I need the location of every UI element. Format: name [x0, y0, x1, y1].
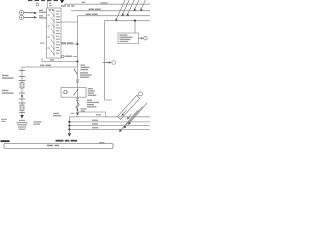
battery mid junction	[19, 92, 25, 94]
bus wire 4 (junction box bottom rail)	[105, 116, 150, 118]
label YEL/WHT	[86, 14, 98, 16]
bus wire BLK 1	[69, 121, 150, 123]
feeder wire label	[53, 113, 62, 117]
label HOT AT ALL TIMES (top-right of strip)	[61, 2, 108, 7]
bus wire BLK 2	[69, 125, 150, 127]
terminal + wire BLU/WHT (switch box bottom right)	[62, 55, 64, 57]
part number note	[99, 142, 105, 143]
label BLU/WHT	[89, 9, 101, 11]
battery G2 label	[2, 90, 14, 94]
margin note (left)	[1, 119, 7, 122]
switch box pin labels	[48, 11, 60, 54]
battery feed wire down	[21, 67, 23, 115]
label BLK	[92, 123, 98, 124]
junction	[68, 121, 70, 123]
internal bus wire	[53, 10, 55, 56]
contact x marks	[49, 9, 54, 11]
ground arrow (battery to frame ground)	[20, 115, 24, 119]
caption (ALTERNATOR CIRCUIT)	[56, 140, 78, 142]
wire RED/BLK from switch box	[61, 43, 78, 45]
C14 coil	[63, 91, 69, 93]
wire B BLU/WHT	[71, 10, 150, 12]
C14 label	[88, 88, 97, 96]
off-page arrows (top right diagonals)	[116, 0, 146, 21]
label BLK	[92, 127, 99, 128]
wire E (to relay box)	[105, 20, 151, 22]
chain backbone wire	[77, 16, 79, 113]
pin label left of switch box	[40, 43, 45, 44]
junction box terminal label	[96, 114, 101, 115]
connector strip pins (top edge, cut off)	[28, 0, 58, 1]
alternator cable (slanted)	[118, 96, 140, 120]
label BLK	[92, 120, 98, 121]
battery G1 label	[2, 75, 14, 79]
label BLK CABLE	[40, 65, 51, 66]
wire arrow from pin 1	[24, 12, 35, 14]
junction	[68, 125, 70, 127]
connector C10 on backbone	[76, 80, 79, 82]
connector pin 2 (to fuse block)	[19, 15, 23, 19]
relay C14 box	[61, 88, 86, 98]
fuse F22	[76, 103, 79, 109]
switch box S1 (main switch)	[47, 8, 62, 58]
wire + terminal from relay box	[139, 37, 143, 39]
harness box label	[47, 145, 59, 147]
junction at backbone bottom	[77, 109, 79, 111]
pin 2 wire label	[39, 15, 47, 18]
wire A (top feed)	[64, 3, 150, 5]
wire from node down to relay box	[134, 21, 136, 33]
figure note (bottom left)	[1, 140, 10, 142]
terminal circle on connector strip	[36, 3, 39, 6]
junction on RED bus	[76, 60, 78, 62]
side note GND cable	[34, 121, 42, 125]
ground bus arrow	[68, 133, 72, 136]
connector below relay	[76, 99, 79, 101]
chain arrow into junction box	[76, 113, 79, 116]
terminal with arrow (mid right)	[103, 62, 106, 64]
junction node on wire E	[134, 20, 136, 22]
wire from junction box to ground bus	[69, 117, 77, 133]
battery G2 cells	[19, 102, 26, 104]
battery G1 cells	[19, 71, 26, 81]
pin 1 wire label	[39, 10, 47, 13]
C14 contact	[74, 90, 77, 94]
connector pin 1 (to fuse block)	[19, 10, 23, 14]
alternator lead arrows	[123, 110, 127, 115]
wire from drop to alternator	[105, 99, 113, 101]
wire C YEL/WHT	[78, 15, 151, 17]
S2 label	[80, 65, 92, 78]
ground label	[17, 120, 28, 130]
bus wire BLK 3	[69, 128, 150, 130]
alternator terminal circle	[138, 92, 142, 96]
label RED	[50, 59, 54, 60]
bus feed label	[71, 113, 75, 114]
relay box (to accessory, top right)	[118, 33, 139, 44]
vertical drop x=104.5	[104, 21, 106, 100]
switch S2	[74, 70, 77, 75]
wire arrow from pin 2	[24, 16, 35, 18]
wire BLK CABLE (to battery)	[22, 66, 78, 68]
harness outline box (bottom)	[4, 143, 113, 148]
arrow at right end of connector strip	[60, 0, 64, 3]
wire stub from switch box to backbone	[61, 21, 78, 23]
battery junction box B+	[77, 112, 105, 117]
switch contacts	[51, 12, 54, 55]
junction	[68, 128, 70, 130]
junction RED/BLK on backbone	[76, 43, 78, 45]
off-page arrows (bottom right diagonals)	[120, 103, 148, 132]
label RED/BLK	[61, 42, 74, 43]
wire from connector strip to switch box	[47, 1, 49, 8]
pin number labels	[49, 3, 52, 6]
wire RED (bus below switch box)	[42, 58, 78, 62]
F22 label	[81, 100, 100, 112]
